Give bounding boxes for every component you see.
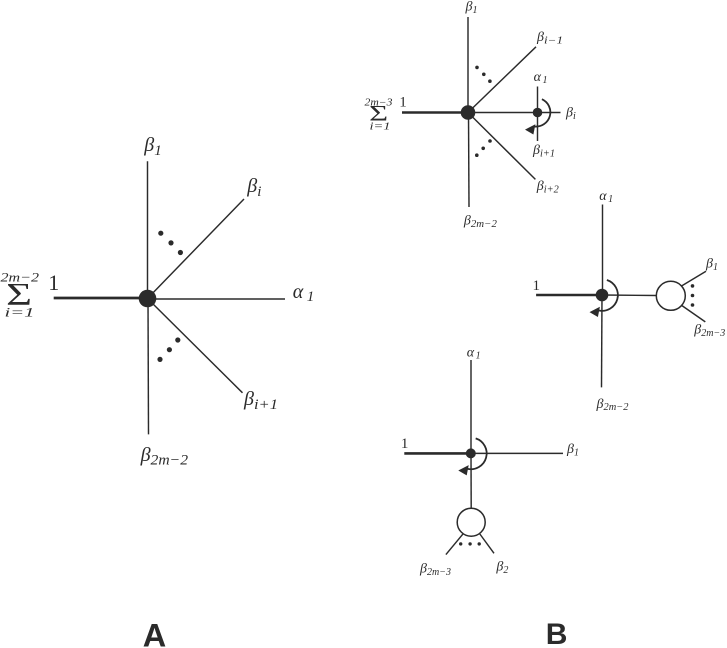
wire B2-right to circle [602, 294, 657, 297]
wire B2 circle-downright [682, 306, 706, 322]
svg-text:1: 1 [399, 95, 407, 111]
rotation arc (B3) [467, 438, 486, 469]
wire B1 small-node up [537, 87, 539, 113]
svg-text:i=1: i=1 [5, 304, 35, 319]
arrowhead (B3 arc) [458, 465, 468, 475]
wire B2 circle-upright [682, 271, 707, 286]
svg-text:β2m−2: β2m−2 [463, 214, 497, 230]
svg-text:B: B [546, 618, 568, 648]
svg-text:βi−1: βi−1 [536, 30, 563, 46]
open circle (B3) [457, 508, 485, 536]
svg-text:β2m−2: β2m−2 [140, 444, 189, 469]
svg-text:α1: α1 [467, 345, 481, 361]
svg-text:1: 1 [48, 270, 59, 295]
node A center [139, 290, 157, 308]
svg-text:α1: α1 [599, 189, 613, 205]
node B1 center [461, 105, 476, 120]
svg-text:α1: α1 [293, 281, 315, 305]
dots B1 upper [475, 66, 492, 83]
svg-text:βi+1: βi+1 [243, 388, 278, 413]
svg-text:α1: α1 [534, 70, 548, 86]
svg-text:1: 1 [401, 436, 409, 452]
bold wire B3-left (edge 1) [404, 452, 471, 455]
svg-text:βi: βi [246, 175, 261, 200]
open circle (B2) [656, 281, 685, 310]
wire B3-right [471, 452, 563, 454]
wire B1-downright [468, 113, 535, 180]
summation 2m-3 over i=1 (B1) [365, 98, 393, 133]
dots B1 lower [475, 139, 492, 157]
arrowhead (B2 arc) [590, 307, 600, 317]
wire B3 circle-downleft [446, 534, 463, 555]
wire B3 circle-downright [480, 534, 495, 554]
wire A-downright [148, 299, 243, 393]
svg-text:β1: β1 [143, 134, 161, 159]
wire A-right [148, 298, 286, 300]
summation 2m-2 over i=1 (A) [1, 270, 40, 320]
wire A-down [147, 299, 150, 435]
svg-text:β2: β2 [495, 560, 508, 576]
wire B1-down [468, 113, 471, 208]
dots A upper [158, 231, 183, 256]
dots B2 (vertical) [691, 284, 695, 307]
arrowhead (B1 arc) [525, 124, 535, 134]
bold wire B2-left (edge 1) [536, 294, 602, 297]
rotation arc (B1) [534, 99, 550, 126]
wire A-upright [148, 199, 245, 299]
node B2 [596, 289, 609, 302]
bold wire A-left (edge 1) [54, 297, 148, 300]
svg-text:A: A [143, 618, 166, 648]
svg-text:i=1: i=1 [370, 122, 391, 133]
dots B3 (horizontal) [459, 542, 481, 545]
dots A lower [157, 337, 180, 362]
wire B2-down [601, 295, 604, 387]
svg-text:1: 1 [533, 278, 541, 294]
node B3 [466, 448, 476, 458]
svg-text:βi+1: βi+1 [532, 143, 555, 159]
svg-text:βi: βi [565, 106, 576, 122]
wire B3-up [470, 360, 472, 453]
svg-text:β1: β1 [566, 442, 579, 458]
node B1 small [533, 108, 543, 118]
wire B3-down to circle [470, 453, 472, 508]
wire B1 small-node down [537, 113, 539, 142]
svg-text:β2m−2: β2m−2 [596, 397, 629, 413]
wire A-up [147, 161, 149, 298]
svg-text:β1: β1 [705, 257, 718, 273]
svg-text:βi+2: βi+2 [536, 179, 559, 195]
rotation arc (B2) [598, 280, 617, 311]
bold wire B1-left (edge 1) [402, 111, 468, 114]
wire B1-right [468, 112, 561, 114]
svg-text:β2m−3: β2m−3 [419, 562, 451, 578]
wire B2-up [602, 205, 604, 296]
svg-text:β2m−3: β2m−3 [693, 323, 725, 339]
wire B1-upright [468, 47, 536, 113]
svg-text:β1: β1 [465, 0, 478, 16]
wire B1-up [467, 17, 469, 113]
